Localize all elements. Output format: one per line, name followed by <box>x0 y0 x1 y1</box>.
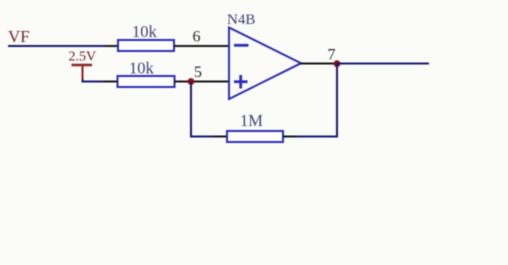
pin R2.2 / U1 pin 5 wire <box>175 81 230 83</box>
svg-text:VF: VF <box>8 27 30 46</box>
pin R1.2 / U1 pin 6 wire <box>174 45 229 47</box>
wire output to right <box>337 63 429 65</box>
op-amp U1 N4B <box>229 28 301 100</box>
pin R3.1 <box>214 136 227 138</box>
junction node pin5/feedback <box>188 78 195 85</box>
svg-text:7: 7 <box>328 47 336 64</box>
wire feedback bottom right <box>296 136 338 138</box>
svg-text:N4B: N4B <box>227 12 255 28</box>
wire VF input <box>8 45 105 47</box>
op-amp output pin 7 <box>300 63 337 65</box>
pin R1.1 <box>105 45 118 47</box>
resistor R1 10k body <box>118 40 174 51</box>
svg-text:1M: 1M <box>240 111 263 130</box>
wire feedback right vertical <box>336 64 338 138</box>
svg-text:10k: 10k <box>132 22 158 41</box>
svg-text:10k: 10k <box>129 59 155 78</box>
pin R3.2 <box>283 136 296 138</box>
svg-text:5: 5 <box>194 64 202 81</box>
junction node output <box>334 60 341 67</box>
resistor R2 10k body <box>118 76 175 87</box>
wire feedback left vertical <box>190 82 192 137</box>
pin R2.1 <box>104 81 118 83</box>
svg-text:2.5V: 2.5V <box>69 50 97 65</box>
op-amp minus input mark <box>234 44 249 47</box>
power bar symbol <box>72 65 93 80</box>
wire 2.5V to R2 <box>83 79 105 82</box>
resistor R3 1M body <box>227 131 283 142</box>
svg-text:6: 6 <box>193 29 201 46</box>
op-amp plus input mark <box>234 75 248 89</box>
wire feedback bottom left <box>190 136 214 138</box>
